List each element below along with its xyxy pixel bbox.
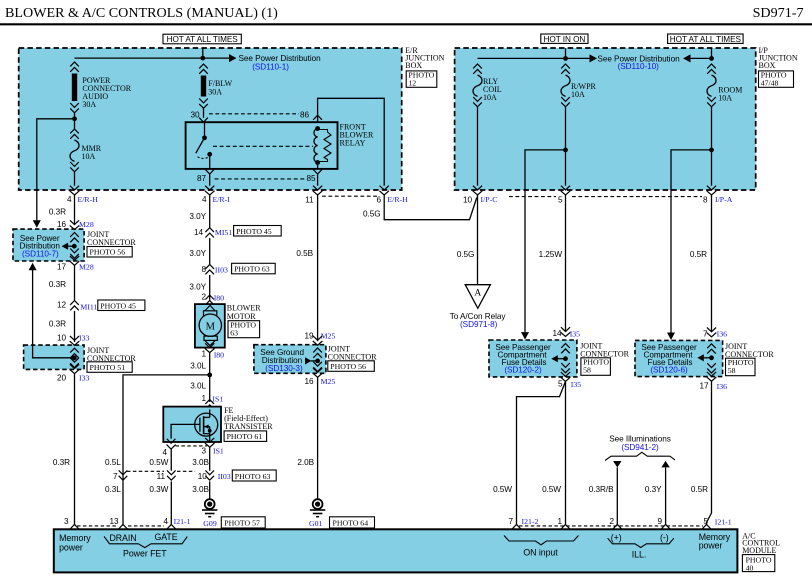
svg-text:3.0L: 3.0L (190, 382, 206, 391)
svg-text:0.5B: 0.5B (296, 249, 313, 258)
svg-text:II03: II03 (215, 265, 228, 274)
svg-text:17: 17 (57, 263, 67, 272)
svg-text:13: 13 (109, 517, 119, 526)
svg-text:30: 30 (190, 111, 200, 120)
svg-text:0.5W: 0.5W (493, 485, 512, 494)
svg-text:16: 16 (57, 220, 67, 229)
svg-text:(SD110-10): (SD110-10) (618, 62, 660, 71)
svg-text:1: 1 (201, 394, 206, 403)
svg-text:12: 12 (57, 301, 67, 310)
svg-text:(SD110-1): (SD110-1) (252, 63, 289, 72)
svg-text:5: 5 (558, 380, 563, 389)
svg-text:I21-2: I21-2 (522, 517, 539, 526)
svg-text:58: 58 (583, 366, 591, 375)
svg-text:20: 20 (57, 374, 67, 383)
svg-text:4: 4 (162, 448, 167, 457)
svg-text:3.0B: 3.0B (192, 458, 209, 467)
svg-text:40: 40 (746, 563, 754, 572)
svg-text:17: 17 (699, 382, 709, 391)
svg-text:6: 6 (376, 196, 381, 205)
svg-text:47/48: 47/48 (761, 79, 779, 88)
svg-text:16: 16 (304, 377, 314, 386)
svg-text:86: 86 (300, 111, 310, 120)
svg-text:ON input: ON input (523, 548, 558, 558)
svg-text:(SD120-6): (SD120-6) (650, 366, 688, 375)
svg-text:0.5W: 0.5W (542, 485, 561, 494)
svg-text:0.3W: 0.3W (149, 485, 168, 494)
svg-text:MODULE: MODULE (742, 546, 776, 555)
svg-text:0.3R: 0.3R (53, 458, 70, 467)
svg-text:I/P-A: I/P-A (715, 195, 733, 204)
svg-text:IS1: IS1 (213, 447, 224, 456)
svg-text:I36: I36 (717, 382, 727, 391)
svg-text:IS1: IS1 (212, 395, 223, 404)
svg-text:85: 85 (306, 174, 316, 183)
svg-text:30A: 30A (208, 88, 222, 97)
svg-text:12: 12 (408, 79, 416, 88)
svg-text:power: power (59, 542, 83, 552)
svg-text:(SD120-2): (SD120-2) (504, 365, 542, 374)
svg-text:PHOTO 56: PHOTO 56 (330, 362, 366, 371)
svg-text:4: 4 (163, 517, 168, 526)
svg-text:I35: I35 (570, 329, 580, 338)
svg-text:0.3Y: 0.3Y (645, 485, 662, 494)
svg-text:(-): (-) (660, 533, 669, 543)
svg-text:8: 8 (703, 195, 708, 204)
svg-text:3.0Y: 3.0Y (189, 249, 206, 258)
svg-text:2.0B: 2.0B (297, 458, 314, 467)
svg-text:II03: II03 (218, 472, 231, 481)
svg-text:I80: I80 (214, 293, 224, 302)
svg-text:MI51: MI51 (215, 228, 232, 237)
svg-text:(SD971-8): (SD971-8) (460, 320, 498, 329)
svg-text:3.0Y: 3.0Y (189, 212, 206, 221)
svg-text:0.3L: 0.3L (105, 485, 121, 494)
svg-text:GATE: GATE (154, 532, 177, 542)
svg-text:I21-1: I21-1 (174, 517, 191, 526)
svg-text:4: 4 (67, 195, 72, 204)
svg-text:5: 5 (558, 196, 563, 205)
svg-text:I/P-C: I/P-C (481, 195, 498, 204)
svg-text:0.3R/B: 0.3R/B (589, 485, 614, 494)
svg-text:Power FET: Power FET (123, 548, 167, 558)
svg-text:1.25W: 1.25W (539, 250, 563, 259)
svg-text:2: 2 (609, 517, 614, 526)
svg-text:MOTOR: MOTOR (227, 312, 256, 321)
svg-text:TRANSISTER: TRANSISTER (224, 422, 273, 431)
svg-text:PHOTO 45: PHOTO 45 (236, 227, 272, 236)
svg-text:14: 14 (552, 329, 562, 338)
svg-text:PHOTO 61: PHOTO 61 (227, 432, 263, 441)
svg-text:M25: M25 (321, 332, 336, 341)
svg-text:(SD941-2): (SD941-2) (621, 443, 659, 452)
svg-text:I35: I35 (571, 380, 581, 389)
svg-text:0.5L: 0.5L (105, 458, 121, 467)
svg-text:(SD110-7): (SD110-7) (22, 250, 59, 259)
svg-text:0.5W: 0.5W (149, 458, 168, 467)
svg-text:I33: I33 (79, 333, 89, 342)
svg-text:7: 7 (113, 472, 118, 481)
svg-text:0.3R: 0.3R (49, 208, 66, 217)
svg-text:3: 3 (201, 446, 206, 455)
svg-text:63: 63 (230, 329, 238, 338)
svg-text:2: 2 (201, 293, 206, 302)
svg-text:19: 19 (304, 332, 314, 341)
svg-text:M: M (206, 321, 216, 332)
svg-text:87: 87 (197, 174, 207, 183)
svg-text:ILL.: ILL. (632, 550, 646, 560)
svg-text:PHOTO 51: PHOTO 51 (90, 363, 126, 372)
svg-text:SD971-7: SD971-7 (753, 5, 804, 21)
svg-text:HOT AT ALL TIMES: HOT AT ALL TIMES (670, 35, 742, 44)
svg-text:10A: 10A (718, 94, 732, 103)
svg-text:M28: M28 (79, 220, 94, 229)
svg-text:0.5R: 0.5R (690, 250, 707, 259)
svg-text:BOX: BOX (759, 61, 776, 70)
svg-text:10A: 10A (483, 93, 497, 102)
svg-text:PHOTO 56: PHOTO 56 (90, 248, 126, 257)
svg-text:7: 7 (508, 517, 513, 526)
svg-text:11: 11 (305, 196, 314, 205)
svg-text:9: 9 (657, 517, 662, 526)
svg-text:I33: I33 (79, 374, 89, 383)
svg-text:MI11: MI11 (80, 302, 97, 311)
svg-text:I36: I36 (717, 329, 727, 338)
svg-text:30A: 30A (82, 100, 96, 109)
svg-text:10A: 10A (571, 90, 585, 99)
svg-text:PHOTO 45: PHOTO 45 (100, 301, 136, 310)
svg-text:14: 14 (194, 228, 204, 237)
svg-text:E/R-H: E/R-H (387, 195, 408, 204)
svg-text:I80: I80 (214, 351, 224, 360)
svg-text:3.0L: 3.0L (190, 362, 206, 371)
svg-text:BOX: BOX (405, 61, 422, 70)
svg-text:BLOWER & A/C CONTROLS (MANUAL): BLOWER & A/C CONTROLS (MANUAL) (1) (5, 5, 278, 21)
svg-text:0.3R: 0.3R (49, 320, 66, 329)
svg-text:power: power (699, 541, 723, 551)
svg-text:10: 10 (57, 333, 67, 342)
svg-text:A: A (474, 289, 481, 299)
svg-text:HOT AT ALL TIMES: HOT AT ALL TIMES (167, 35, 239, 44)
svg-text:4: 4 (202, 195, 207, 204)
svg-text:G01: G01 (309, 519, 323, 528)
svg-text:E/R-H: E/R-H (78, 195, 99, 204)
svg-text:58: 58 (728, 366, 736, 375)
svg-text:3: 3 (64, 517, 69, 526)
svg-text:0.5R: 0.5R (691, 485, 708, 494)
svg-text:3.0Y: 3.0Y (189, 283, 206, 292)
svg-text:RELAY: RELAY (340, 139, 366, 148)
svg-text:8: 8 (201, 265, 206, 274)
svg-text:CONNECTOR: CONNECTOR (87, 238, 136, 247)
svg-text:3.0B: 3.0B (192, 485, 209, 494)
svg-text:M28: M28 (79, 263, 94, 272)
svg-text:I21-1: I21-1 (715, 518, 732, 527)
svg-text:0.5G: 0.5G (457, 250, 475, 259)
svg-text:HOT IN ON: HOT IN ON (544, 35, 586, 44)
svg-text:M25: M25 (321, 377, 336, 386)
svg-text:(SD130-3): (SD130-3) (265, 364, 303, 373)
svg-text:G09: G09 (203, 519, 217, 528)
svg-text:PHOTO 63: PHOTO 63 (234, 265, 270, 274)
svg-text:DRAIN: DRAIN (109, 533, 136, 543)
svg-text:5: 5 (703, 517, 708, 526)
svg-text:0.5G: 0.5G (363, 210, 381, 219)
svg-text:PHOTO 63: PHOTO 63 (235, 472, 271, 481)
svg-text:0.3R: 0.3R (49, 280, 66, 289)
svg-text:PHOTO 64: PHOTO 64 (333, 519, 369, 528)
svg-text:10A: 10A (82, 152, 96, 161)
svg-text:1: 1 (557, 517, 562, 526)
svg-text:1: 1 (201, 350, 206, 359)
svg-text:10: 10 (463, 195, 473, 204)
svg-text:PHOTO 57: PHOTO 57 (224, 519, 260, 528)
svg-text:E/R-I: E/R-I (213, 195, 231, 204)
svg-text:CONNECTOR: CONNECTOR (328, 353, 377, 362)
svg-text:(+): (+) (611, 533, 622, 543)
svg-text:11: 11 (157, 472, 166, 481)
